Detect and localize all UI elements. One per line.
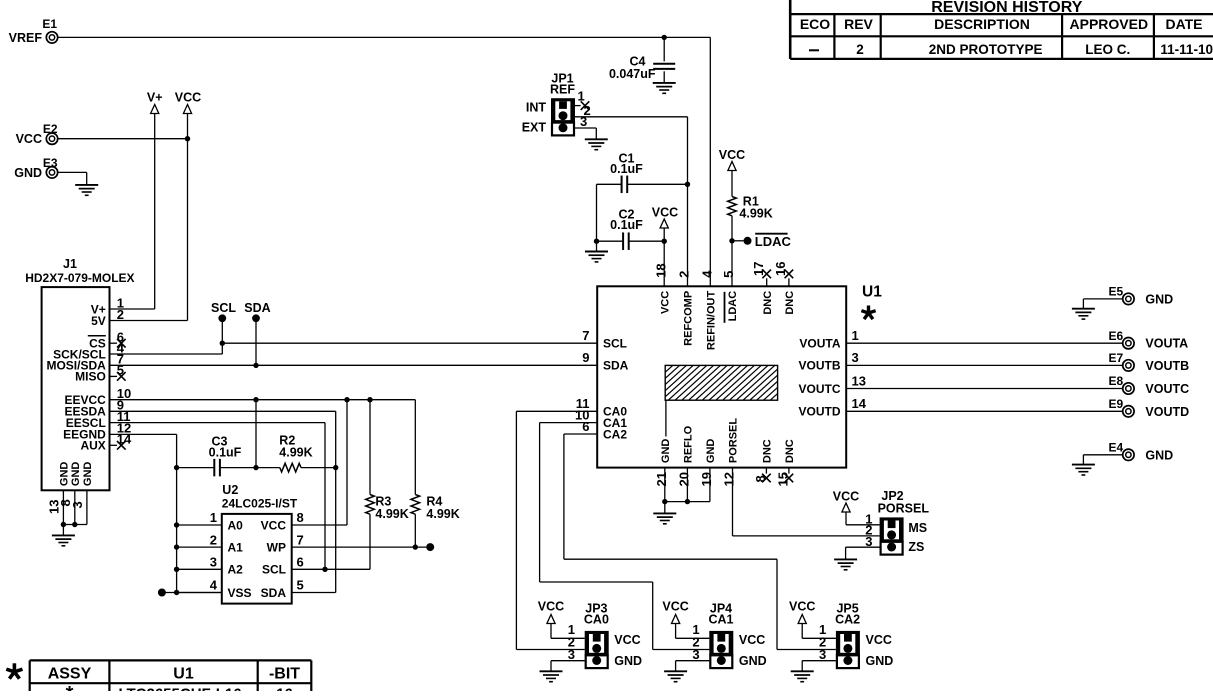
svg-text:VOUTA: VOUTA bbox=[1145, 337, 1188, 351]
svg-text:6: 6 bbox=[297, 555, 304, 570]
svg-text:GND: GND bbox=[70, 462, 82, 487]
svg-text:REFCOMP: REFCOMP bbox=[683, 291, 695, 346]
svg-text:GND: GND bbox=[866, 654, 894, 668]
svg-text:GND: GND bbox=[614, 654, 642, 668]
svg-text:A2: A2 bbox=[228, 563, 244, 577]
svg-text:REVISION HISTORY: REVISION HISTORY bbox=[931, 0, 1082, 16]
svg-text:SDA: SDA bbox=[603, 359, 629, 373]
svg-text:5: 5 bbox=[721, 271, 736, 278]
svg-text:VCC: VCC bbox=[833, 489, 859, 503]
svg-text:3: 3 bbox=[210, 555, 217, 570]
svg-text:3: 3 bbox=[819, 647, 826, 662]
svg-text:5V: 5V bbox=[91, 314, 106, 328]
svg-text:SDA: SDA bbox=[261, 586, 287, 600]
svg-text:VCC: VCC bbox=[659, 291, 671, 314]
svg-text:E9: E9 bbox=[1109, 397, 1124, 411]
svg-text:2: 2 bbox=[677, 271, 692, 278]
svg-text:VCC: VCC bbox=[652, 206, 678, 220]
svg-text:14: 14 bbox=[852, 396, 867, 411]
svg-text:WP: WP bbox=[267, 540, 286, 554]
svg-text:E5: E5 bbox=[1109, 285, 1124, 299]
svg-text:4: 4 bbox=[210, 578, 218, 593]
svg-text:APPROVED: APPROVED bbox=[1070, 16, 1149, 32]
svg-text:GND: GND bbox=[59, 462, 71, 487]
svg-text:E3: E3 bbox=[43, 156, 58, 170]
svg-text:16: 16 bbox=[773, 262, 788, 276]
svg-text:0.1uF: 0.1uF bbox=[610, 162, 643, 176]
svg-text:LTC2655CUF-L16: LTC2655CUF-L16 bbox=[118, 686, 241, 692]
svg-text:17: 17 bbox=[751, 262, 766, 276]
svg-text:A0: A0 bbox=[228, 518, 244, 532]
svg-text:11-11-10: 11-11-10 bbox=[1160, 42, 1213, 57]
svg-text:-BIT: -BIT bbox=[269, 665, 300, 682]
svg-text:MS: MS bbox=[908, 521, 927, 535]
svg-text:A1: A1 bbox=[228, 540, 244, 554]
svg-text:16: 16 bbox=[276, 686, 293, 692]
svg-text:E1: E1 bbox=[42, 17, 57, 31]
svg-text:VOUTA: VOUTA bbox=[799, 337, 840, 351]
svg-text:GND: GND bbox=[14, 166, 42, 180]
svg-text:4.99K: 4.99K bbox=[426, 507, 459, 521]
svg-text:VREF: VREF bbox=[9, 31, 43, 45]
svg-text:GND: GND bbox=[82, 462, 94, 487]
svg-text:CA0: CA0 bbox=[584, 612, 609, 626]
svg-text:GND: GND bbox=[660, 439, 672, 464]
svg-text:SCL: SCL bbox=[603, 337, 627, 351]
svg-text:GND: GND bbox=[739, 654, 767, 668]
svg-text:ZS: ZS bbox=[908, 540, 924, 554]
svg-text:E4: E4 bbox=[1109, 440, 1124, 454]
svg-text:VCC: VCC bbox=[719, 148, 745, 162]
svg-text:ASSY: ASSY bbox=[48, 665, 92, 682]
svg-text:12: 12 bbox=[722, 472, 737, 486]
svg-text:LDAC: LDAC bbox=[727, 291, 739, 322]
svg-text:13: 13 bbox=[852, 373, 866, 388]
svg-text:2: 2 bbox=[210, 532, 217, 547]
svg-text:21: 21 bbox=[654, 472, 669, 486]
svg-text:CA2: CA2 bbox=[603, 427, 627, 441]
svg-text:5: 5 bbox=[297, 578, 304, 593]
svg-text:DNC: DNC bbox=[762, 291, 774, 315]
svg-text:3: 3 bbox=[568, 647, 575, 662]
svg-text:GND: GND bbox=[1145, 292, 1173, 306]
svg-text:2ND PROTOTYPE: 2ND PROTOTYPE bbox=[929, 42, 1043, 57]
svg-text:*: * bbox=[66, 683, 74, 691]
svg-text:18: 18 bbox=[653, 263, 668, 277]
svg-text:LEO C.: LEO C. bbox=[1085, 42, 1130, 57]
svg-text:VSS: VSS bbox=[228, 586, 252, 600]
svg-text:0.047uF: 0.047uF bbox=[609, 67, 656, 81]
svg-text:E2: E2 bbox=[43, 122, 58, 136]
svg-text:REV: REV bbox=[844, 16, 873, 32]
svg-text:VOUTB: VOUTB bbox=[799, 359, 841, 373]
svg-text:VOUTC: VOUTC bbox=[799, 382, 841, 396]
svg-text:ECO: ECO bbox=[800, 16, 830, 32]
svg-text:4.99K: 4.99K bbox=[739, 206, 772, 220]
svg-text:6: 6 bbox=[582, 419, 589, 434]
svg-text:AUX: AUX bbox=[80, 439, 105, 453]
svg-text:DNC: DNC bbox=[784, 439, 796, 463]
svg-text:VOUTC: VOUTC bbox=[1145, 382, 1189, 396]
svg-text:REFLO: REFLO bbox=[683, 425, 695, 463]
svg-text:VCC: VCC bbox=[739, 633, 765, 647]
svg-text:INT: INT bbox=[526, 100, 547, 114]
svg-text:7: 7 bbox=[582, 328, 589, 343]
svg-text:4.99K: 4.99K bbox=[279, 445, 312, 459]
svg-text:4: 4 bbox=[700, 270, 715, 278]
svg-text:EXT: EXT bbox=[522, 121, 547, 135]
svg-text:0.1uF: 0.1uF bbox=[610, 218, 643, 232]
svg-text:SCL: SCL bbox=[211, 301, 236, 315]
svg-text:U1: U1 bbox=[173, 665, 194, 682]
svg-text:E8: E8 bbox=[1109, 374, 1124, 388]
svg-text:REFIN/OUT: REFIN/OUT bbox=[706, 291, 718, 351]
svg-text:CA2: CA2 bbox=[835, 612, 860, 626]
svg-text:E6: E6 bbox=[1109, 329, 1124, 343]
svg-text:GND: GND bbox=[705, 439, 717, 464]
svg-text:2: 2 bbox=[856, 42, 864, 57]
svg-text:PORSEL: PORSEL bbox=[728, 418, 740, 464]
svg-text:VCC: VCC bbox=[866, 633, 892, 647]
svg-text:VCC: VCC bbox=[614, 633, 640, 647]
svg-text:E7: E7 bbox=[1109, 351, 1124, 365]
svg-text:VOUTD: VOUTD bbox=[799, 405, 841, 419]
svg-text:SCL: SCL bbox=[262, 563, 286, 577]
svg-text:LDAC: LDAC bbox=[755, 234, 792, 249]
svg-text:VCC: VCC bbox=[789, 599, 815, 613]
svg-text:VCC: VCC bbox=[662, 599, 688, 613]
svg-text:U1: U1 bbox=[862, 284, 882, 301]
svg-text:20: 20 bbox=[677, 472, 692, 486]
svg-text:19: 19 bbox=[699, 472, 714, 486]
svg-text:24LC025-I/ST: 24LC025-I/ST bbox=[222, 496, 298, 510]
svg-text:PORSEL: PORSEL bbox=[878, 502, 930, 516]
svg-text:1: 1 bbox=[852, 328, 859, 343]
svg-text:SDA: SDA bbox=[244, 301, 270, 315]
svg-text:HD2X7-079-MOLEX: HD2X7-079-MOLEX bbox=[25, 271, 134, 285]
svg-text:MISO: MISO bbox=[75, 370, 106, 384]
svg-text:VCC: VCC bbox=[175, 91, 201, 105]
svg-text:8: 8 bbox=[297, 510, 304, 525]
svg-text:VOUTD: VOUTD bbox=[1145, 405, 1189, 419]
svg-text:7: 7 bbox=[297, 532, 304, 547]
svg-text:REF: REF bbox=[550, 83, 575, 97]
svg-text:3: 3 bbox=[852, 350, 859, 365]
svg-text:3: 3 bbox=[692, 647, 699, 662]
svg-text:0.1uF: 0.1uF bbox=[209, 445, 242, 459]
svg-text:DESCRIPTION: DESCRIPTION bbox=[934, 16, 1030, 32]
svg-text:GND: GND bbox=[1145, 448, 1173, 462]
svg-text:DNC: DNC bbox=[762, 439, 774, 463]
svg-text:9: 9 bbox=[582, 350, 589, 365]
svg-text:U2: U2 bbox=[222, 483, 238, 497]
svg-text:VCC: VCC bbox=[261, 518, 287, 532]
svg-text:3: 3 bbox=[70, 501, 85, 508]
svg-text:VCC: VCC bbox=[16, 132, 42, 146]
svg-text:VOUTB: VOUTB bbox=[1145, 359, 1189, 373]
svg-text:1: 1 bbox=[210, 510, 217, 525]
svg-text:V+: V+ bbox=[147, 91, 163, 105]
svg-text:DNC: DNC bbox=[784, 291, 796, 315]
svg-text:J1: J1 bbox=[63, 257, 77, 271]
svg-text:DATE: DATE bbox=[1165, 16, 1202, 32]
svg-text:CA1: CA1 bbox=[708, 612, 733, 626]
svg-text:VCC: VCC bbox=[538, 599, 564, 613]
svg-text:4.99K: 4.99K bbox=[375, 507, 408, 521]
